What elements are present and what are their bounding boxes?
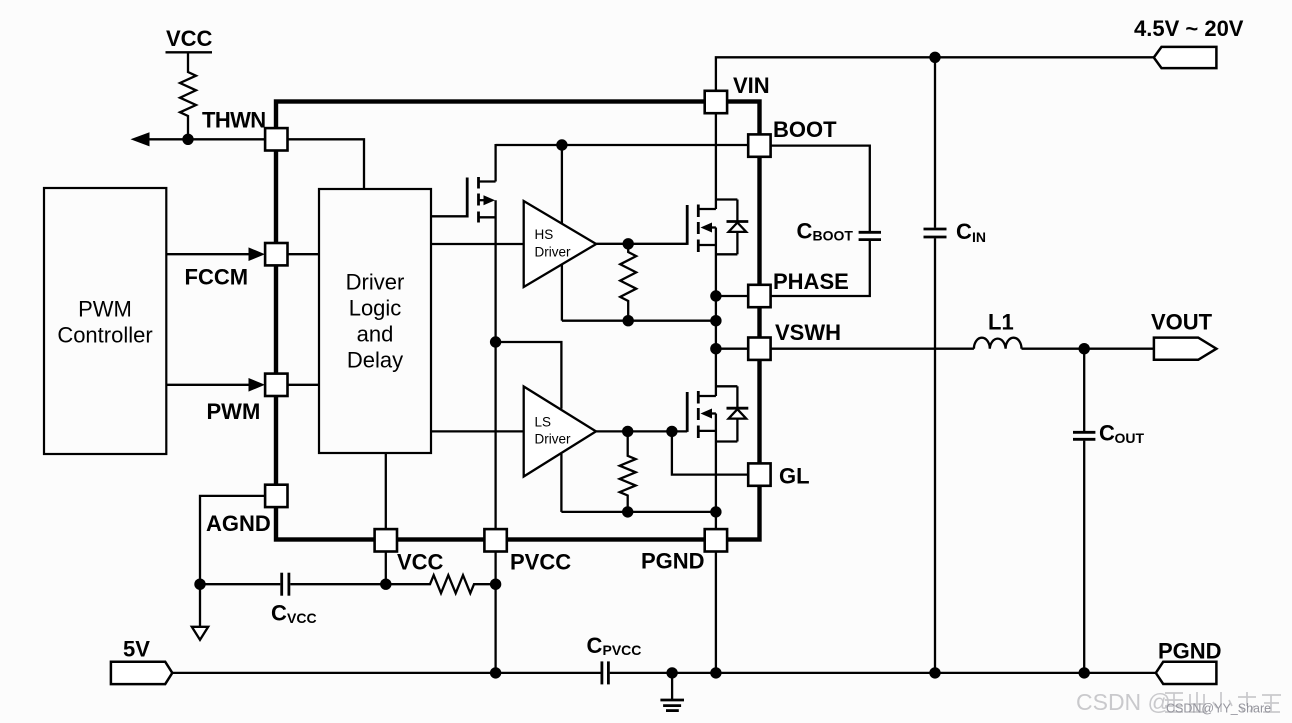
wire LS return bus xyxy=(561,511,716,513)
svg-text:PGND: PGND xyxy=(1158,639,1222,664)
label COUT xyxy=(1099,421,1145,447)
PWM Controller block xyxy=(44,188,166,454)
SECTION: watermark xyxy=(1076,689,1281,716)
connector 5V flag xyxy=(111,662,172,684)
node LS return junction xyxy=(622,506,633,517)
svg-text:C: C xyxy=(956,219,972,244)
node THWN junction xyxy=(182,134,193,145)
wire HS driver output to Q1 gate xyxy=(596,243,687,245)
svg-text:OUT: OUT xyxy=(1115,430,1145,446)
wire VIN pin to Q1 drain xyxy=(715,113,717,209)
capacitor CVCC xyxy=(282,573,289,596)
wire Q2 source to PGND pin xyxy=(715,414,717,530)
svg-text:HS: HS xyxy=(535,227,554,242)
svg-text:PWM: PWM xyxy=(207,399,261,424)
wire PGND pin down xyxy=(715,552,717,673)
svg-text:PVCC: PVCC xyxy=(510,550,571,575)
pin VCC xyxy=(375,529,397,551)
wire CIN column lower xyxy=(934,238,936,673)
svg-text:and: and xyxy=(357,322,394,347)
svg-text:PWM: PWM xyxy=(78,297,132,322)
wire COUT column upper xyxy=(1083,349,1085,431)
wire CBOOT to PHASE xyxy=(771,241,870,296)
pin PGND xyxy=(705,529,727,551)
node CIN top junction xyxy=(929,52,940,63)
wire HS driver supply xyxy=(561,145,563,223)
diode D1 body xyxy=(716,200,748,255)
svg-text:Driver: Driver xyxy=(346,270,405,295)
node rail PVCC junction xyxy=(490,667,501,678)
node HS return junction xyxy=(623,315,634,326)
svg-text:L1: L1 xyxy=(988,310,1014,335)
svg-text:VSWH: VSWH xyxy=(775,320,841,345)
wire FCCM pin to Driver Logic xyxy=(288,253,320,255)
pin FCCM xyxy=(265,243,287,265)
inductor L1 xyxy=(974,338,1022,349)
pin VIN xyxy=(705,91,727,113)
node VCC junction xyxy=(380,579,391,590)
wire GL tap to GL pin xyxy=(672,431,748,474)
svg-text:PVCC: PVCC xyxy=(603,642,642,658)
node PHASE junction xyxy=(710,290,721,301)
svg-text:5V: 5V xyxy=(123,637,150,662)
svg-text:Driver: Driver xyxy=(535,432,572,447)
svg-text:IN: IN xyxy=(972,229,986,245)
svg-text:Controller: Controller xyxy=(57,323,152,348)
wire Q1 source to Q2 drain column xyxy=(715,228,717,397)
pin VSWH xyxy=(748,338,770,360)
transistor Q1 high-side xyxy=(687,205,716,253)
op-amp U-LS driver xyxy=(524,387,596,477)
resistor R2 VCC-PVCC xyxy=(386,575,496,593)
svg-text:4.5V ~ 20V: 4.5V ~ 20V xyxy=(1134,16,1244,41)
pin AGND xyxy=(265,485,287,507)
wire VSWH pin link xyxy=(716,348,748,350)
pin PVCC xyxy=(484,529,506,551)
wire LS driver supply from PVCC xyxy=(496,342,562,409)
resistor R3 HS gate xyxy=(620,244,636,321)
capacitor COUT xyxy=(1073,432,1095,439)
svg-text:C: C xyxy=(1099,421,1115,446)
svg-text:Delay: Delay xyxy=(347,348,403,373)
node BOOT internal junction xyxy=(556,139,567,150)
wire THWN pin to Driver Logic top xyxy=(288,139,365,189)
svg-text:PGND: PGND xyxy=(641,549,705,574)
node rail COUT junction xyxy=(1079,667,1090,678)
svg-text:CSDN @: CSDN @ xyxy=(1076,689,1171,715)
wire BOOT top rail xyxy=(496,144,749,146)
svg-text:FCCM: FCCM xyxy=(185,265,249,290)
svg-text:BOOT: BOOT xyxy=(813,227,854,243)
wire COUT column lower xyxy=(1083,441,1085,673)
svg-text:GL: GL xyxy=(779,464,810,489)
transistor Q3 xyxy=(467,177,495,223)
wire HS driver return xyxy=(561,265,563,321)
resistor R4 LS gate xyxy=(620,431,636,512)
wire HS driver input xyxy=(431,243,524,245)
wire L1 to VOUT xyxy=(1022,348,1154,350)
label CVCC xyxy=(271,601,317,627)
connector VOUT flag xyxy=(1154,338,1217,360)
node HS return at VSWH column xyxy=(710,315,721,326)
wire PVCC pin down to 5V rail xyxy=(494,552,496,673)
label CBOOT xyxy=(797,218,854,243)
wire VIN input rail xyxy=(716,57,1154,91)
svg-text:AGND: AGND xyxy=(206,511,271,536)
wire PVCC internal rail xyxy=(494,200,496,529)
svg-text:CSDN@YY_Share: CSDN@YY_Share xyxy=(1166,702,1271,716)
wire FCCM from PWM Controller xyxy=(166,247,265,261)
node GL tap junction xyxy=(666,426,677,437)
wire BOOT to CBOOT xyxy=(771,146,870,231)
wire THWN to pin xyxy=(188,138,265,140)
wire VSWH to L1 xyxy=(771,348,974,350)
svg-text:C: C xyxy=(271,601,287,626)
capacitor CIN xyxy=(924,229,947,237)
transistor Q2 low-side xyxy=(687,391,716,438)
resistor R1 xyxy=(180,53,196,139)
node rail earth junction xyxy=(666,667,677,678)
wire LS driver return xyxy=(560,454,562,512)
VCC power label xyxy=(166,26,213,52)
IC boundary U1 xyxy=(276,102,760,540)
svg-text:Driver: Driver xyxy=(535,244,572,259)
wire CVCC to VCC node xyxy=(290,583,386,585)
svg-text:PHASE: PHASE xyxy=(773,269,849,294)
wire PWM pin to Driver Logic xyxy=(288,384,320,386)
svg-text:THWN: THWN xyxy=(202,108,266,133)
capacitor CBOOT xyxy=(859,232,881,239)
ground AGND symbol xyxy=(192,584,208,640)
Driver Logic and Delay block xyxy=(319,189,431,453)
svg-text:VIN: VIN xyxy=(733,73,770,98)
wire CIN column upper xyxy=(934,57,936,227)
node rail CIN junction xyxy=(929,667,940,678)
connector PGND flag xyxy=(1156,662,1217,684)
svg-text:VCC: VCC xyxy=(166,26,213,51)
svg-text:Logic: Logic xyxy=(349,296,402,321)
wire HS return bus xyxy=(562,320,716,322)
wire bottom rail right xyxy=(610,672,1156,674)
pin BOOT xyxy=(748,134,770,156)
wire VCC pin down xyxy=(385,552,387,585)
node HS gate junction xyxy=(623,238,634,249)
wire bottom 5V rail left xyxy=(172,672,600,674)
ground earth symbol xyxy=(660,673,684,711)
node VSWH junction xyxy=(710,343,721,354)
svg-text:VCC: VCC xyxy=(397,550,444,575)
wire LS driver output to Q2 gate xyxy=(596,430,687,432)
capacitor CPVCC xyxy=(602,661,609,684)
wire Driver Logic to Q3 gate xyxy=(431,215,467,217)
svg-text:LS: LS xyxy=(535,414,552,429)
pin PHASE xyxy=(748,285,770,307)
pin GL xyxy=(748,463,770,485)
svg-text:C: C xyxy=(587,633,603,658)
svg-text:C: C xyxy=(797,218,813,243)
wire LS driver input xyxy=(431,430,524,432)
svg-text:VCC: VCC xyxy=(287,610,317,626)
wire AGND to CVCC xyxy=(200,583,280,585)
node rail PGND junction xyxy=(710,667,721,678)
wire Driver Logic to VCC pin xyxy=(385,453,387,529)
pin THWN xyxy=(265,128,287,150)
wire PHASE pin link xyxy=(716,295,748,297)
node PVCC rail junction xyxy=(490,336,501,347)
node LS gate resistor junction xyxy=(622,426,633,437)
node LS return at PGND column xyxy=(710,506,721,517)
pin PWM xyxy=(265,374,287,396)
node AGND junction xyxy=(194,579,205,590)
connector 4.5V-20V input flag xyxy=(1154,47,1217,68)
node PVCC junction xyxy=(490,579,501,590)
diode D2 body xyxy=(716,386,748,441)
wire Q3 drain drop xyxy=(494,144,496,182)
node COUT junction xyxy=(1079,343,1090,354)
op-amp U-HS driver xyxy=(524,201,597,287)
label CPVCC xyxy=(587,633,642,658)
svg-text:BOOT: BOOT xyxy=(773,117,837,142)
label CIN xyxy=(956,219,986,245)
THWN left arrow xyxy=(131,132,189,146)
wire PWM from PWM Controller xyxy=(166,378,265,392)
svg-text:VOUT: VOUT xyxy=(1151,310,1213,335)
wire AGND pin to ground xyxy=(200,496,265,584)
